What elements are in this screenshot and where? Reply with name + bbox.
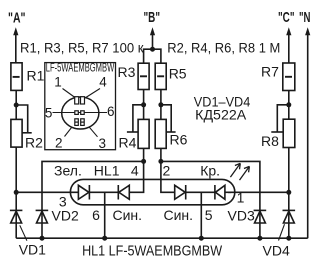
wire pin2 net top [161, 161, 260, 238]
wire die4 to pill right [225, 191, 231, 193]
leader VD4 [279, 224, 285, 240]
node B terminal arrow [150, 27, 155, 49]
svg-text:R4: R4 [119, 135, 137, 151]
svg-text:HL1: HL1 [94, 162, 120, 178]
diode VD1 [10, 192, 23, 238]
wire N rail [16, 237, 308, 239]
node A terminal arrow [13, 27, 18, 63]
node junction R7/R8 [286, 102, 291, 107]
wire R7-R8 [288, 91, 290, 120]
svg-text:VD2: VD2 [52, 208, 79, 224]
node junction R1/R2 [14, 103, 19, 108]
svg-text:HL1 LF-5WAEMBGMBW: HL1 LF-5WAEMBGMBW [82, 243, 222, 259]
svg-text:1: 1 [237, 190, 245, 206]
node pin4 junction [141, 159, 146, 164]
resistor R5 [155, 63, 166, 89]
pinout top tabs [75, 97, 85, 104]
pinout leader pin1 [63, 89, 76, 98]
wire pin1 [228, 191, 289, 193]
pinout LED body circle [62, 97, 99, 129]
wire R6 to pin2 [160, 148, 162, 161]
svg-text:2: 2 [163, 162, 171, 178]
node rail VD4 [286, 236, 291, 241]
svg-text:КД522А: КД522А [195, 107, 247, 123]
wire R4 to pin4 [143, 148, 145, 161]
wire pin2 inner [161, 161, 175, 192]
node rail pin5 [199, 236, 204, 241]
svg-text:Син.: Син. [113, 207, 143, 223]
LED die blue D3 [175, 185, 186, 200]
svg-text:Кр.: Кр. [200, 162, 220, 178]
pinout leader pin3 [89, 127, 97, 137]
svg-text:R8: R8 [261, 133, 279, 149]
junction dot B [150, 47, 155, 52]
svg-text:6: 6 [92, 207, 100, 223]
node N terminal arrow [305, 27, 310, 238]
svg-text:R5: R5 [169, 66, 187, 82]
wire B bracket [144, 49, 161, 63]
svg-text:2: 2 [55, 136, 63, 151]
node rail VD3 [257, 236, 262, 241]
wire pin6 drop [104, 192, 106, 238]
pinout bottom pads [75, 119, 84, 126]
node pin2 junction [158, 159, 163, 164]
svg-text:R6: R6 [170, 131, 188, 147]
svg-text:R1, R3, R5, R7 100 к: R1, R3, R5, R7 100 к [20, 41, 144, 57]
svg-text:"С": "С" [278, 9, 295, 26]
pinout leader pin2 [65, 127, 72, 136]
wire die3-die4 with pin5 [186, 191, 215, 193]
svg-text:VD4: VD4 [263, 242, 290, 258]
resistor R6 with tap [155, 105, 175, 149]
pinout 5-6 diameter line [53, 112, 108, 114]
svg-text:LF-5WAEMBGMBW: LF-5WAEMBGMBW [46, 63, 115, 75]
resistor R4 with tap [127, 105, 149, 149]
diode VD3 [254, 210, 267, 223]
svg-text:R2, R4, R6, R8 1 М: R2, R4, R6, R8 1 М [167, 41, 280, 57]
svg-text:6: 6 [107, 104, 115, 119]
svg-text:1: 1 [54, 74, 62, 89]
node junction R3/R4 [141, 102, 146, 107]
svg-text:R2: R2 [25, 135, 43, 151]
node C terminal arrow [286, 27, 291, 63]
wire R2 to pin3 node [15, 147, 17, 192]
pinout box U1 [45, 63, 116, 150]
svg-text:"N: "N [299, 9, 311, 26]
wire R1-R2 [15, 90, 17, 119]
svg-text:R3: R3 [118, 64, 136, 80]
wire R8 to pin1 node [288, 148, 290, 193]
diode VD2 [36, 210, 49, 223]
resistor R2 with tap [11, 105, 32, 147]
node pin1 junction [286, 190, 291, 195]
leader VD1 [20, 225, 27, 240]
svg-text:VD3: VD3 [228, 208, 255, 224]
svg-text:Зел.: Зел. [54, 162, 82, 178]
LED emission arrow 1 [230, 163, 240, 177]
node junction R5/R6 [158, 102, 163, 107]
wire R5-R6 [160, 90, 162, 120]
LED package HL1 pill [70, 179, 234, 204]
wire pin4 net top [42, 161, 144, 238]
svg-text:4: 4 [131, 162, 139, 178]
svg-text:Син.: Син. [164, 207, 194, 223]
resistor R8 with tap [271, 105, 295, 148]
resistor R3 [138, 63, 149, 89]
LED die red D4 [215, 185, 225, 200]
wire pin5 drop [200, 192, 202, 238]
pinout middle pads [75, 111, 84, 115]
svg-text:R7: R7 [261, 64, 279, 80]
diode VD4 [283, 192, 296, 238]
LED die green D1 [78, 185, 89, 200]
svg-text:"А": "А" [8, 9, 26, 26]
resistor R7 [283, 63, 295, 91]
wire R3-R4 [143, 90, 145, 120]
wire pin4 inner [129, 161, 143, 192]
svg-text:5: 5 [45, 105, 53, 120]
node rail VD2 [40, 236, 45, 241]
node rail pin6 [102, 236, 107, 241]
LED die blue D2 [118, 185, 129, 200]
svg-text:5: 5 [205, 207, 213, 223]
wire pin3 [16, 191, 78, 193]
LED emission arrow 2 [240, 166, 250, 180]
svg-text:VD1: VD1 [19, 241, 46, 257]
svg-text:3: 3 [99, 136, 107, 151]
resistor R1 [11, 63, 22, 91]
wire die1-die2 with pin6 [89, 191, 118, 193]
svg-text:"В": "В" [144, 9, 161, 26]
node pin3 junction [14, 190, 19, 195]
svg-text:R1: R1 [27, 67, 45, 83]
svg-text:4: 4 [99, 74, 107, 89]
pinout leader pin4 [86, 89, 100, 98]
